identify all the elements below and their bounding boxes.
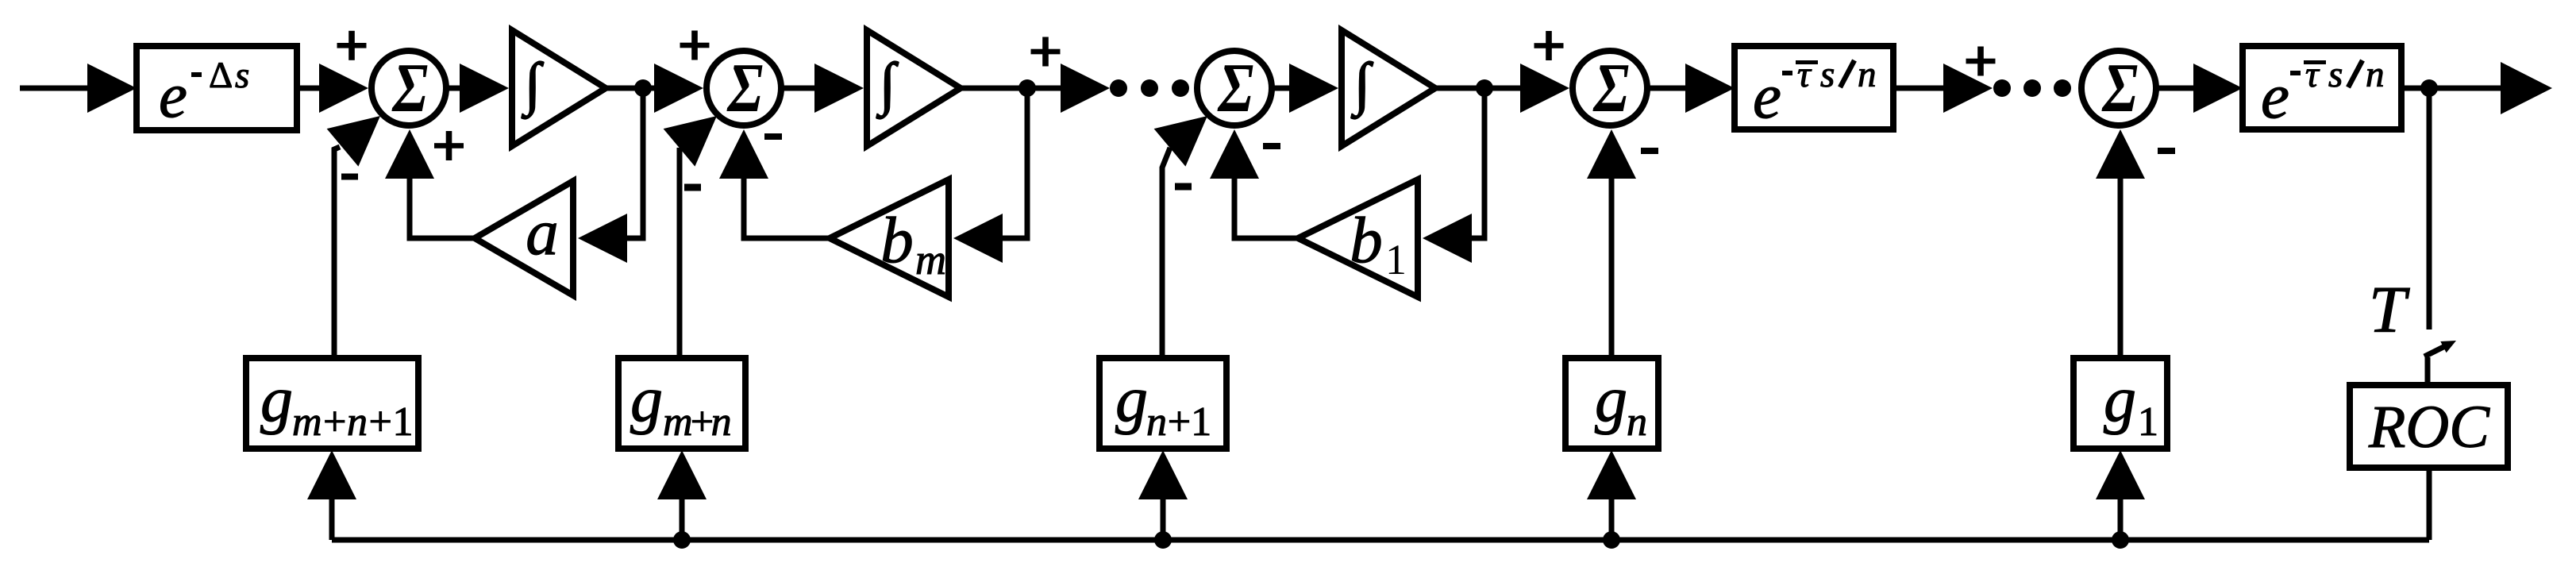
bus node dot at g_1 xyxy=(2112,531,2129,549)
block g_n+1 xyxy=(1099,358,1226,449)
wire from gain b_m to S2 xyxy=(744,176,830,238)
integrator 2 xyxy=(867,30,961,146)
arrowhead into S2 xyxy=(654,64,703,113)
wire integrator 1 to node xyxy=(606,86,656,91)
block ROC xyxy=(2350,385,2508,468)
wire integrator 3 to node xyxy=(1435,86,1486,91)
svg-text:Σ: Σ xyxy=(2101,49,2138,126)
wire S1 to integrator 1 xyxy=(446,86,462,91)
integrator 3 xyxy=(1342,30,1435,146)
summer S2 xyxy=(707,49,781,126)
wire from gain a to S1 xyxy=(410,176,475,238)
svg-text:Δs: Δs xyxy=(209,55,249,96)
ROC adjusting arrowhead xyxy=(2440,341,2456,353)
summer S3 xyxy=(1197,49,1272,126)
svg-text:g: g xyxy=(2104,363,2136,435)
node dot after integrator 1 xyxy=(634,79,652,97)
wire node down to gain b_m xyxy=(999,88,1027,238)
arrowhead up into S1 xyxy=(385,129,434,179)
summer S5 xyxy=(2081,49,2156,126)
arrowhead into gain b_1 xyxy=(1423,214,1472,263)
node dot after integrator 3 xyxy=(1476,79,1493,97)
arrowhead up into S4 xyxy=(1587,129,1636,179)
svg-text:e: e xyxy=(1753,60,1781,132)
svg-text:a: a xyxy=(526,195,559,268)
svg-text:b: b xyxy=(880,203,914,276)
svg-text:m+n: m+n xyxy=(663,399,730,445)
wire block1 to summer S1 xyxy=(297,86,322,91)
minus sign at S3 bottom input xyxy=(1263,143,1280,149)
wire integrator 2 to node xyxy=(961,86,1029,91)
input arrowhead xyxy=(87,64,137,113)
wire from g_n up to S4 xyxy=(1609,176,1615,358)
plus sign above S2 input xyxy=(680,43,710,48)
arrowhead into g_1 xyxy=(2096,450,2145,499)
arrowhead into g_m+n xyxy=(657,450,707,499)
output node dot xyxy=(2420,79,2438,97)
svg-text:Σ: Σ xyxy=(391,49,428,126)
svg-text:Σ: Σ xyxy=(726,49,763,126)
integrator 1 xyxy=(512,30,606,146)
input wire xyxy=(20,86,90,91)
wire node down to gain b_1 xyxy=(1470,88,1484,238)
wire bus up into g_m+n xyxy=(680,498,685,540)
minus sign at S2 bottom input xyxy=(764,133,782,140)
wire bus up into g_n xyxy=(1609,498,1615,540)
svg-text:Σ: Σ xyxy=(1217,49,1253,126)
minus sign at S2 lower-left input xyxy=(684,184,701,191)
feedback bus wire xyxy=(332,538,2429,543)
arrowhead up into S3 xyxy=(1210,129,1259,179)
diagonal arrowhead into S1 xyxy=(327,116,380,167)
minus sign at S4 bottom input xyxy=(1641,148,1658,154)
minus sign at S5 bottom input xyxy=(2158,148,2175,154)
wire node to arrow xyxy=(1027,86,1064,91)
minus sign at S3 lower-left input xyxy=(1175,183,1192,191)
wire from g_n+1 up to S3 xyxy=(1162,148,1170,358)
bus node dot at g_n+1 xyxy=(1154,531,1172,549)
svg-text:ROC: ROC xyxy=(2368,394,2490,461)
svg-text:m: m xyxy=(915,236,946,283)
arrowhead into g_m+n+1 xyxy=(307,450,356,499)
block e^-tau s/n #1 xyxy=(1735,46,1893,132)
ellipsis dots 2 xyxy=(1993,79,2011,97)
diagonal arrowhead into S3 xyxy=(1154,116,1207,167)
svg-text:g: g xyxy=(260,363,293,435)
wire bus up into g_1 xyxy=(2118,498,2124,540)
diagonal arrowhead into S2 xyxy=(664,116,717,167)
arrowhead into delay block 1 xyxy=(1685,64,1735,113)
arrowhead before ellipsis xyxy=(1061,64,1110,113)
wire S4 to delay block 1 xyxy=(1647,86,1688,91)
svg-text:n+1: n+1 xyxy=(1146,399,1210,445)
svg-text:1: 1 xyxy=(1385,236,1407,283)
gain a triangle xyxy=(475,181,573,295)
svg-text:Σ: Σ xyxy=(1592,49,1629,126)
block e^-Delta s xyxy=(137,46,297,131)
arrowhead into S4 xyxy=(1520,64,1569,113)
bus node dot at g_m+n xyxy=(673,531,691,549)
arrowhead up into S2 xyxy=(719,129,768,179)
arrowhead into integrator 1 xyxy=(460,64,509,113)
wire from gain b_1 to S3 xyxy=(1234,176,1298,238)
arrowhead into gain a xyxy=(578,214,627,263)
block g_n xyxy=(1565,358,1658,449)
arrowhead into gain b_m xyxy=(953,214,1003,263)
block g_1 xyxy=(2074,358,2167,449)
wire ROC down to feedback bus xyxy=(2427,468,2432,540)
node dot after integrator 2 xyxy=(1018,79,1036,97)
plus sign above S4 input xyxy=(1534,43,1564,48)
wire from g_m+n+1 up to S1 xyxy=(334,147,340,358)
plus sign before S3 xyxy=(1031,49,1061,55)
wire node to S4 arrow xyxy=(1484,86,1524,91)
svg-text:e: e xyxy=(2261,60,2289,132)
wire S5 to delay block 2 xyxy=(2156,86,2196,91)
svg-text:m+n+1: m+n+1 xyxy=(292,399,412,445)
gain b_1 triangle xyxy=(1298,179,1418,297)
plus sign at S1 bottom input xyxy=(434,143,464,148)
svg-text:e: e xyxy=(159,60,187,131)
arrowhead into S1 xyxy=(319,64,368,113)
output arrowhead xyxy=(2501,62,2552,114)
block g_m+n xyxy=(618,358,745,449)
svg-text:b: b xyxy=(1350,203,1383,276)
arrowhead up into S5 xyxy=(2096,129,2145,179)
gain b_m triangle xyxy=(830,179,949,297)
arrowhead into integrator 3 xyxy=(1289,64,1338,113)
plus sign before S5 xyxy=(1966,59,1996,64)
bus node dot at g_n xyxy=(1603,531,1620,549)
block e^-tau s/n #2 xyxy=(2243,46,2401,132)
arrowhead before ellipsis 2 xyxy=(1943,64,1993,113)
wire output node down (sampled signal) xyxy=(2427,88,2432,330)
wire delay block 2 to output xyxy=(2401,86,2505,91)
wire S2 to integrator 2 xyxy=(781,86,819,91)
arrowhead into integrator 2 xyxy=(814,64,864,113)
wire delay block 1 out xyxy=(1893,86,1946,91)
plus sign above S1 input xyxy=(337,43,367,48)
wire S3 to integrator 3 xyxy=(1272,86,1294,91)
svg-text:n: n xyxy=(1627,399,1647,445)
wire node down to gain a xyxy=(624,88,643,238)
svg-text:T: T xyxy=(2369,273,2410,347)
svg-text:g: g xyxy=(1595,363,1627,435)
arrowhead into delay block 2 xyxy=(2193,64,2243,113)
wire from g_1 up to S5 xyxy=(2118,176,2124,358)
ellipsis dots xyxy=(1110,79,1127,97)
summer S4 xyxy=(1573,49,1647,126)
ROC adjusting arrow stub xyxy=(2425,357,2431,385)
svg-text:g: g xyxy=(630,363,663,435)
arrowhead into g_n+1 xyxy=(1138,450,1188,499)
summer S1 xyxy=(372,49,446,126)
wire bus up into g_n+1 xyxy=(1161,498,1166,540)
wire bus up into g_m+n+1 xyxy=(329,498,335,540)
svg-text:1: 1 xyxy=(2138,399,2158,445)
svg-text:g: g xyxy=(1115,363,1148,435)
minus sign at S1 lower-left input xyxy=(341,174,358,180)
block g_m+n+1 xyxy=(246,358,418,449)
arrowhead into g_n xyxy=(1587,450,1636,499)
wire from g_m+n up to S2 xyxy=(677,148,683,358)
ROC adjusting arrow diagonal xyxy=(2424,345,2448,357)
